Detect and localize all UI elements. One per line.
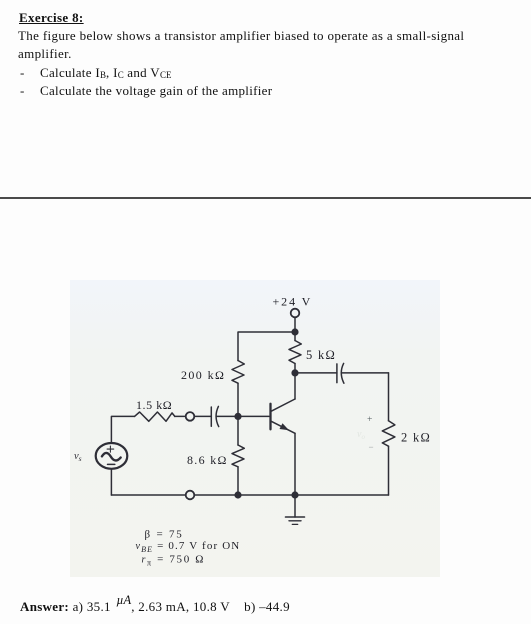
- label output polarity plus: [367, 415, 372, 425]
- label 8.6 kΩ: [187, 453, 228, 467]
- svg-text:5 kΩ: 5 kΩ: [306, 348, 336, 362]
- ground: [286, 495, 305, 524]
- label vs: [74, 451, 82, 463]
- wire C2 to load top: [342, 372, 389, 374]
- supply terminal +24 V: [291, 309, 300, 318]
- node A top rail junction: [291, 328, 298, 335]
- label vBE = 0.7 V for ON: [136, 540, 241, 554]
- wire source bottom: [110, 469, 112, 495]
- resistor R1 200 kΩ: [232, 361, 244, 384]
- terminal input upper open: [186, 412, 195, 421]
- wire bottom rail: [111, 494, 388, 496]
- node C divider rail junction: [234, 491, 241, 498]
- svg-text:8.6 kΩ: 8.6 kΩ: [187, 453, 228, 467]
- label 2 kΩ: [401, 431, 431, 445]
- svg-text:−: −: [369, 442, 374, 452]
- svg-text:+: +: [367, 415, 372, 425]
- svg-text:+24 V: +24 V: [273, 295, 313, 309]
- node B base node: [234, 413, 241, 420]
- wire C1 to base node: [216, 415, 238, 417]
- source VS: [96, 443, 128, 469]
- wire load branch right vertical bottom: [388, 446, 390, 495]
- node E emitter rail junction: [291, 491, 298, 498]
- capacitor C2 output coupling: [337, 363, 344, 383]
- resistor R3 5 kΩ: [289, 341, 301, 364]
- wire input row left: [111, 416, 134, 443]
- label 1.5 kΩ: [136, 398, 172, 412]
- wire collector vertical: [294, 373, 296, 399]
- wire R3 bottom to collector node: [294, 364, 296, 373]
- wire supply stub: [294, 317, 296, 329]
- resistor RS 1.5 kΩ: [135, 412, 175, 421]
- wire node A to R3: [294, 332, 296, 341]
- svg-text:2 kΩ: 2 kΩ: [401, 431, 431, 445]
- capacitor C1 input coupling: [211, 406, 218, 426]
- wire base node to R2: [237, 416, 239, 445]
- label output polarity minus: [369, 442, 374, 452]
- terminal input lower open: [186, 491, 195, 500]
- wire top rail to R1 branch: [238, 332, 295, 361]
- transistor Q1: [271, 399, 296, 433]
- label output vo faint: [357, 429, 365, 441]
- wire resistor to input terminal: [175, 415, 186, 417]
- resistor RL 2 kΩ: [382, 421, 395, 446]
- label rpi = 750 ohm: [142, 554, 206, 568]
- wire base: [238, 415, 269, 417]
- label 5 kΩ: [306, 348, 336, 362]
- wire R2 bottom to rail: [237, 467, 239, 495]
- label +24 V: [273, 295, 313, 309]
- label beta = 75: [145, 528, 184, 540]
- svg-text:1.5 kΩ: 1.5 kΩ: [136, 398, 172, 412]
- svg-text:200 kΩ: 200 kΩ: [181, 368, 225, 382]
- svg-text:β = 75: β = 75: [145, 528, 184, 540]
- resistor R2 8.6 kΩ: [232, 445, 244, 467]
- wire load branch right vertical top: [388, 373, 390, 421]
- node D collector node: [291, 369, 298, 376]
- wire collector node to C2: [295, 372, 337, 374]
- label 200 kΩ: [181, 368, 225, 382]
- wire emitter vertical: [294, 433, 296, 495]
- wire terminal to C1: [194, 415, 211, 417]
- wire R1 bottom to base node: [237, 383, 239, 416]
